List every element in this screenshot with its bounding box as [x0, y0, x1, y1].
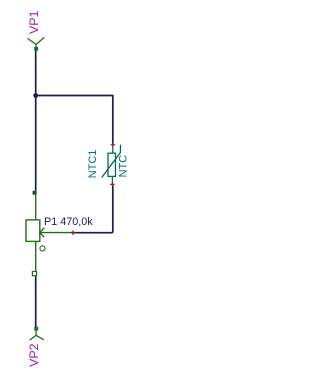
svg-text:P1 470,0k: P1 470,0k: [44, 216, 93, 228]
svg-text:NTC: NTC: [118, 155, 130, 178]
svg-text:VP2: VP2: [27, 343, 41, 367]
svg-text:NTC1: NTC1: [87, 150, 99, 179]
svg-text:VP1: VP1: [27, 10, 41, 34]
